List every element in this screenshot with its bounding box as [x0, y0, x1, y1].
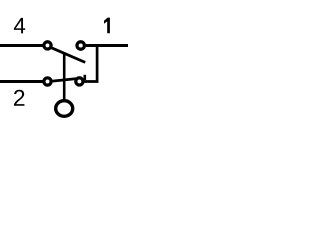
pin label 1	[104, 18, 110, 34]
contact terminal pin 2	[44, 78, 51, 85]
wire pin 1	[86, 44, 128, 47]
wire pin 2	[0, 80, 43, 83]
pushbutton actuator	[56, 101, 73, 117]
switch lever bottom (closed contact)	[53, 79, 77, 82]
pin label 2	[14, 90, 24, 106]
pin label 4	[14, 18, 25, 33]
contact terminal pin 1 bottom	[76, 78, 83, 85]
switch lever top (open contact)	[52, 48, 86, 63]
actuator stem	[63, 53, 66, 100]
contact terminal pin 4	[44, 42, 51, 49]
wire bus pin 1 to lower contact	[85, 46, 98, 82]
wire pin 4	[0, 44, 43, 47]
contact stub above lower right contact	[84, 75, 87, 80]
contact terminal pin 1 top	[77, 42, 84, 49]
